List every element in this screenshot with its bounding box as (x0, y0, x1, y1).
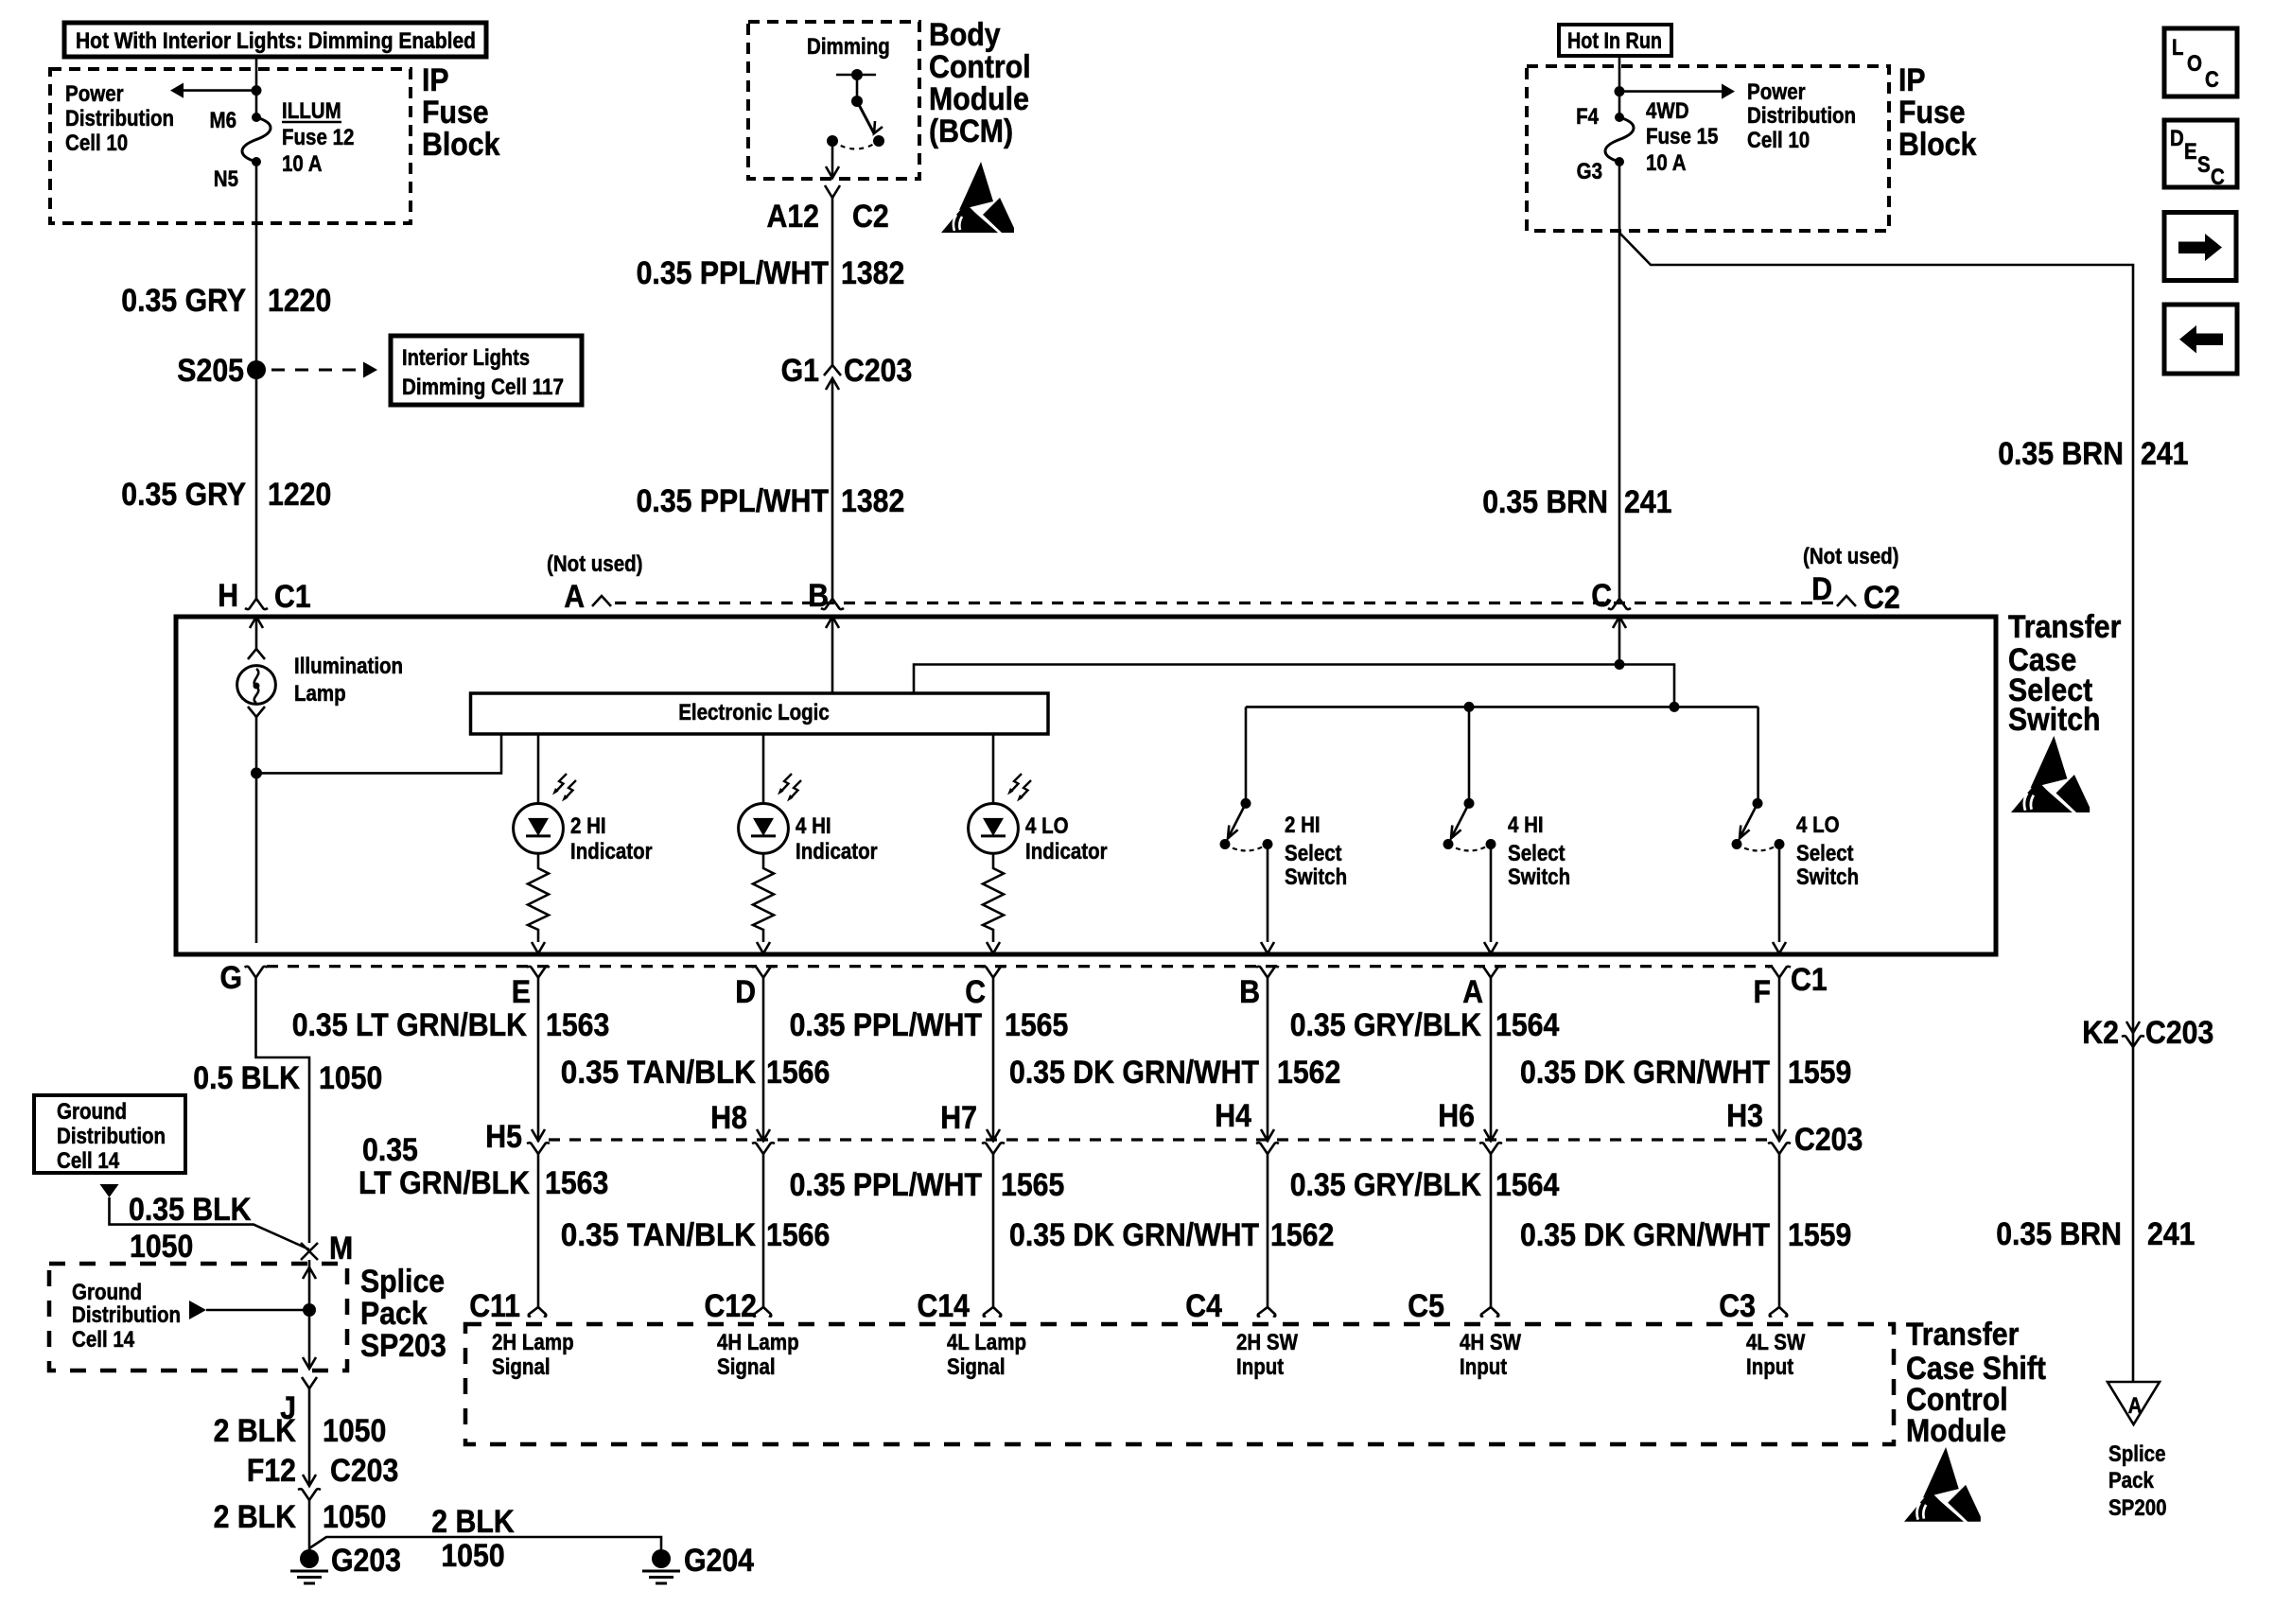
wire: pin D down to C203 (762, 978, 765, 1142)
in-line connector H8 C203 (710, 1100, 775, 1154)
module pin label C4 (1185, 1288, 1222, 1324)
svg-text:C203: C203 (330, 1453, 398, 1489)
svg-text:1382: 1382 (841, 483, 904, 519)
DESC box (2164, 120, 2237, 190)
svg-text:G: G (220, 960, 243, 996)
svg-text:H3: H3 (1726, 1098, 1763, 1134)
in-line connector K2 C203 (right) (2082, 1015, 2213, 1051)
svg-text:241: 241 (1624, 484, 1672, 520)
wire label 0.35 GRY/BLK 1564 (row3) (1290, 1167, 1560, 1203)
wire: feed to splice M (110, 1197, 310, 1249)
svg-text:1220: 1220 (268, 477, 331, 513)
connector C1 dashed line (bottom) (267, 965, 1773, 968)
text 4H Lamp Signal (717, 1330, 799, 1380)
junction node (right fuse feed) (1615, 86, 1625, 96)
svg-text:0.35 DK GRN/WHT: 0.35 DK GRN/WHT (1009, 1055, 1259, 1091)
ground distribution feed triangle (100, 1184, 119, 1197)
fuse ILLUM Fuse 12 10A (symbol) (242, 113, 271, 166)
svg-text:(BCM): (BCM) (929, 114, 1013, 149)
svg-text:Hot With Interior Lights: Dimm: Hot With Interior Lights: Dimming Enable… (76, 28, 476, 54)
svg-text:Fuse 12: Fuse 12 (282, 125, 354, 150)
Transfer Case Shift Control Module dashed box (465, 1324, 1894, 1444)
svg-text:4 LO: 4 LO (1025, 813, 1069, 839)
svg-text:1050: 1050 (323, 1413, 386, 1449)
wire: switch to BCM box edge with arrow (826, 141, 839, 178)
svg-text:0.35 GRY/BLK: 0.35 GRY/BLK (1290, 1167, 1482, 1203)
svg-text:Ground: Ground (72, 1280, 142, 1305)
pin label G3 (1577, 159, 1602, 184)
switch 2 HI Select Switch (1220, 798, 1275, 953)
module pin label C12 (705, 1288, 758, 1324)
svg-text:Illumination: Illumination (294, 654, 403, 679)
svg-text:S205: S205 (177, 353, 244, 389)
arrowhead to Interior Lights box (363, 362, 377, 378)
svg-text:C1: C1 (274, 579, 311, 615)
svg-text:1564: 1564 (1496, 1167, 1559, 1203)
illumination lamp terminal chevron (top) (248, 649, 265, 659)
svg-text:1220: 1220 (268, 283, 331, 319)
svg-text:Hot In Run: Hot In Run (1567, 28, 1662, 54)
svg-text:Fuse: Fuse (1898, 95, 1966, 131)
svg-text:LT GRN/BLK: LT GRN/BLK (359, 1165, 530, 1201)
svg-text:2 HI: 2 HI (570, 813, 606, 839)
svg-text:1566: 1566 (766, 1217, 830, 1253)
svg-text:Cell 10: Cell 10 (65, 131, 128, 156)
svg-text:4L Lamp: 4L Lamp (947, 1330, 1026, 1355)
wire: branch to splice pack SP200 (right edge run) (1619, 233, 2133, 1382)
svg-text:Dimming: Dimming (807, 34, 890, 60)
in-line connector F12 C203 (247, 1453, 398, 1500)
svg-text:E: E (512, 974, 531, 1010)
splice M (X mark) + label (301, 1231, 353, 1266)
wire: fuse N5 down to S205 (255, 162, 258, 370)
svg-text:0.35 BRN: 0.35 BRN (1996, 1216, 2122, 1252)
illumination lamp terminal chevron (bottom) (248, 707, 265, 717)
LOC box (2164, 28, 2237, 96)
svg-text:Interior Lights: Interior Lights (402, 345, 530, 371)
IP fuse block dashed box (left) (50, 69, 411, 223)
pin A (bottom) fork + label (1462, 967, 1502, 1010)
label box: Ground Distribution Cell 14 (upper) (34, 1095, 185, 1174)
svg-text:L: L (2172, 35, 2184, 61)
svg-text:0.5 BLK: 0.5 BLK (193, 1060, 300, 1096)
svg-text:Fuse: Fuse (422, 95, 489, 131)
svg-text:C1: C1 (1791, 962, 1828, 998)
text Illumination Lamp (294, 654, 403, 707)
text 4H SW Input (1460, 1330, 1521, 1380)
svg-text:Transfer: Transfer (1906, 1317, 2019, 1353)
svg-text:4H Lamp: 4H Lamp (717, 1330, 799, 1355)
wire: pin F down to C203 (1778, 978, 1781, 1142)
svg-text:1559: 1559 (1788, 1055, 1851, 1091)
svg-text:1564: 1564 (1496, 1007, 1559, 1043)
wire label 2 BLK 1050 (upper) (214, 1413, 387, 1449)
svg-text:0.35 GRY: 0.35 GRY (121, 477, 246, 513)
svg-text:Module: Module (929, 81, 1029, 117)
text ILLUM Fuse 12 10 A (282, 98, 354, 177)
wire label 0.35 TAN/BLK 1566 (row4) (561, 1217, 831, 1253)
splice pack SP200 triangle (2108, 1382, 2160, 1424)
svg-text:Body: Body (929, 17, 1001, 53)
svg-text:Distribution: Distribution (57, 1124, 166, 1149)
svg-text:Switch: Switch (2008, 702, 2101, 738)
Transfer Case Select Switch box (176, 617, 1996, 954)
svg-text:G1: G1 (781, 353, 819, 389)
module pin fork (D column) (754, 1307, 772, 1317)
dimming switch inside BCM (827, 69, 884, 149)
text 4 LO Select Switch (1796, 812, 1859, 890)
svg-text:Cell 14: Cell 14 (57, 1148, 120, 1174)
svg-text:Switch: Switch (1508, 864, 1570, 890)
splice box exit arrow (303, 1357, 316, 1369)
svg-text:C4: C4 (1185, 1288, 1222, 1324)
svg-text:Distribution: Distribution (65, 106, 174, 131)
label box: Hot In Run (1559, 25, 1671, 56)
svg-text:1050: 1050 (323, 1499, 386, 1535)
pin C fork and label (1591, 578, 1631, 614)
svg-text:4H SW: 4H SW (1460, 1330, 1521, 1355)
text Body Control Module (BCM) (929, 17, 1031, 149)
svg-text:Block: Block (422, 127, 499, 163)
wire: D column down to shift module (762, 1154, 765, 1307)
svg-text:(Not used): (Not used) (1803, 544, 1899, 569)
svg-text:0.35 BLK: 0.35 BLK (129, 1192, 252, 1228)
wire label 0.35 GRY/BLK 1564 (row1) (1290, 1007, 1560, 1043)
svg-text:Fuse 15: Fuse 15 (1646, 124, 1718, 149)
svg-text:Splice: Splice (360, 1264, 445, 1300)
svg-text:Switch: Switch (1285, 864, 1347, 890)
svg-text:Electronic Logic: Electronic Logic (678, 700, 830, 725)
junction node (lamp return) (251, 767, 262, 778)
module pin fork (E column) (529, 1307, 547, 1317)
wire: F12 down to ground G203 (308, 1500, 311, 1551)
LED 4 HI Indicator + resistor (739, 734, 801, 953)
svg-text:D: D (735, 974, 756, 1010)
pin G (bottom) fork + label (220, 960, 268, 996)
wire: J down to C203 (308, 1388, 311, 1485)
pin labels A12 / C2 (767, 199, 889, 235)
svg-text:0.35 GRY/BLK: 0.35 GRY/BLK (1290, 1007, 1482, 1043)
wire label 0.35 / LT GRN/BLK 1563 (row3) (359, 1132, 608, 1201)
text 4 HI Select Switch (1508, 812, 1570, 890)
wire: pin B down to C203 (1267, 978, 1269, 1142)
svg-text:C203: C203 (2145, 1015, 2213, 1051)
pin H arrow into box (250, 617, 263, 628)
svg-text:F12: F12 (247, 1453, 296, 1489)
in-line connector H4 C203 (1215, 1098, 1279, 1154)
svg-text:2 HI: 2 HI (1285, 812, 1321, 838)
ESD symbol (select switch) (2011, 736, 2090, 812)
Splice Pack SP203 dashed box (49, 1264, 347, 1371)
svg-text:1563: 1563 (546, 1007, 609, 1043)
svg-text:1050: 1050 (319, 1060, 382, 1096)
svg-text:F4: F4 (1576, 104, 1599, 130)
svg-text:4L SW: 4L SW (1746, 1330, 1806, 1355)
wire: Electronic Logic feed to switch bus (914, 665, 1674, 707)
svg-text:Input: Input (1746, 1354, 1793, 1380)
svg-text:K2: K2 (2082, 1015, 2119, 1051)
svg-text:G203: G203 (331, 1543, 401, 1579)
wire: lamp junction to Electronic Logic (256, 734, 501, 773)
pin label M6 (210, 108, 237, 133)
wire: pin B into Electronic Logic (831, 617, 834, 693)
svg-text:B: B (808, 578, 829, 614)
text Power Distribution Cell 10 (left) (65, 81, 174, 156)
svg-text:Switch: Switch (1796, 864, 1859, 890)
svg-text:Indicator: Indicator (1025, 839, 1108, 864)
svg-text:A12: A12 (767, 199, 820, 235)
svg-text:Distribution: Distribution (1747, 103, 1856, 129)
module pin label C14 (918, 1288, 971, 1324)
svg-text:10 A: 10 A (1646, 150, 1687, 176)
svg-text:Module: Module (1906, 1413, 2006, 1449)
module pin fork (C column) (984, 1307, 1002, 1317)
svg-text:IP: IP (1898, 62, 1926, 98)
in-line connector G1 C203 (781, 353, 913, 390)
pin B (bottom) fork + label (1239, 967, 1279, 1010)
text 2 HI Select Switch (1285, 812, 1347, 890)
IP fuse block dashed box (right) (1527, 66, 1889, 231)
text 4 HI Indicator (796, 813, 878, 864)
svg-text:E: E (2184, 139, 2197, 165)
wire: F column down to shift module (1778, 1154, 1781, 1307)
pin H (C1) fork and label (218, 578, 311, 615)
svg-text:A: A (564, 579, 585, 615)
module pin label C3 (1719, 1288, 1756, 1324)
ground G203 (290, 1543, 401, 1583)
module pin label C5 (1408, 1288, 1444, 1324)
svg-text:H5: H5 (485, 1119, 522, 1155)
svg-text:0.35 BRN: 0.35 BRN (1482, 484, 1608, 520)
fuse 4WD Fuse 15 10A (symbol) (1605, 113, 1634, 166)
wire label 0.35 GRY 1220 (lower) (121, 477, 331, 513)
svg-text:C12: C12 (705, 1288, 758, 1324)
svg-text:Block: Block (1898, 127, 1976, 163)
svg-text:C5: C5 (1408, 1288, 1444, 1324)
wire label 0.35 DK GRN/WHT 1562 (row4) (1009, 1217, 1334, 1253)
ground G204 (642, 1543, 754, 1583)
pin B arrow into box (826, 617, 839, 628)
wire: B column down to shift module (1267, 1154, 1269, 1307)
svg-text:2 BLK: 2 BLK (214, 1413, 297, 1449)
ESD symbol (BCM) (941, 162, 1014, 233)
text 2H Lamp Signal (492, 1330, 574, 1380)
module pin label C11 (469, 1288, 520, 1324)
connector fork below splice box (pin J) (280, 1377, 317, 1426)
wire: C203 down to pin B (831, 378, 834, 599)
in-line connector H7 C203 (940, 1100, 1005, 1154)
svg-text:D: D (2170, 126, 2184, 151)
text Power Distribution Cell 10 (right) (1747, 79, 1856, 153)
svg-text:4 HI: 4 HI (1508, 812, 1544, 838)
pin B fork and label (808, 578, 844, 614)
svg-text:241: 241 (2141, 436, 2189, 472)
svg-text:0.35 DK GRN/WHT: 0.35 DK GRN/WHT (1009, 1217, 1259, 1253)
wire: lamp to junction (255, 717, 258, 773)
svg-text:1562: 1562 (1277, 1055, 1340, 1091)
wire label 0.35 DK GRN/WHT 1559 (row4) (1520, 1217, 1851, 1253)
svg-text:S: S (2197, 152, 2211, 178)
text Splice Pack SP203 (360, 1264, 446, 1364)
wire label 0.35 BRN 241 (center) (1482, 484, 1671, 520)
text 2H SW Input (1236, 1330, 1298, 1380)
svg-text:B: B (1239, 974, 1260, 1010)
svg-text:C203: C203 (844, 353, 912, 389)
pin label N5 (214, 166, 238, 192)
wire label 0.35 DK GRN/WHT 1559 (row2) (1520, 1055, 1851, 1091)
svg-text:Power: Power (65, 81, 124, 107)
svg-text:0.35: 0.35 (362, 1132, 418, 1168)
svg-text:Select: Select (1796, 841, 1854, 866)
wire: lamp junction down to pin G (255, 773, 258, 943)
svg-text:Cell 10: Cell 10 (1747, 128, 1810, 153)
svg-text:IP: IP (422, 62, 449, 98)
svg-text:G3: G3 (1577, 159, 1602, 184)
svg-text:Power: Power (1747, 79, 1806, 105)
svg-text:SP200: SP200 (2108, 1495, 2167, 1521)
wire label 2 BLK / 1050 (branch) (431, 1504, 515, 1574)
wire: S205 down to pin H (255, 370, 258, 599)
wire: pin C down to logic feed (1618, 617, 1621, 665)
svg-text:C2: C2 (1863, 580, 1900, 616)
wire: pin H to illumination lamp (255, 617, 258, 649)
svg-text:1050: 1050 (130, 1229, 193, 1265)
junction node (C feed) (1615, 659, 1625, 670)
svg-text:Indicator: Indicator (570, 839, 653, 864)
splice S205 node (177, 353, 266, 389)
label C1 (bottom connector) (1791, 962, 1828, 998)
junction node at fuse feed (252, 85, 262, 96)
svg-text:Dimming Cell 117: Dimming Cell 117 (402, 375, 564, 400)
svg-text:D: D (1811, 571, 1832, 607)
text IP Fuse Block (left) (422, 62, 499, 163)
in-line connector H5 C203 (485, 1119, 550, 1155)
svg-text:0.35 TAN/BLK: 0.35 TAN/BLK (561, 1055, 757, 1091)
wire: bus corner down to 2HI switch (1245, 707, 1248, 803)
wire: M through splice box (303, 1260, 316, 1369)
pin A (not used) caret + label (547, 551, 643, 615)
svg-text:ILLUM: ILLUM (282, 98, 341, 124)
svg-text:4 HI: 4 HI (796, 813, 831, 839)
wire: E column down to shift module (537, 1154, 540, 1307)
wire label 0.35 BRN 241 (right lower) (1996, 1216, 2195, 1252)
wire label 0.35 DK GRN/WHT 1562 (row2) (1009, 1055, 1340, 1091)
svg-text:Transfer: Transfer (2008, 609, 2121, 645)
wire: pin E down to C203 (537, 978, 540, 1142)
arrow to Power Distribution (right) (1619, 84, 1735, 99)
text Dimming (807, 34, 890, 60)
svg-text:1562: 1562 (1270, 1217, 1334, 1253)
switch 4 HI Select Switch (1443, 798, 1498, 953)
junction node (bus/logic) (1670, 702, 1680, 712)
pin label F4 (1576, 104, 1599, 130)
svg-text:Distribution: Distribution (72, 1302, 181, 1328)
wire: from title box into fuse block (255, 57, 258, 117)
LED 2 HI Indicator + resistor (514, 734, 576, 953)
svg-text:C14: C14 (918, 1288, 971, 1324)
arrow to Power Distribution (left) (170, 83, 256, 98)
svg-text:Pack: Pack (2108, 1468, 2154, 1493)
svg-text:0.35 DK GRN/WHT: 0.35 DK GRN/WHT (1520, 1217, 1770, 1253)
svg-text:1565: 1565 (1001, 1167, 1064, 1203)
svg-text:2H Lamp: 2H Lamp (492, 1330, 574, 1355)
svg-text:1563: 1563 (545, 1165, 608, 1201)
wire label 0.35 PPL/WHT 1382 (lower) (637, 483, 905, 519)
wire: fuse G3 down to pin C (1618, 162, 1621, 599)
pin C arrow into box (1613, 617, 1626, 628)
svg-text:SP203: SP203 (360, 1328, 446, 1364)
svg-text:C11: C11 (469, 1288, 520, 1324)
svg-text:C3: C3 (1719, 1288, 1756, 1324)
svg-text:0.35 PPL/WHT: 0.35 PPL/WHT (790, 1007, 983, 1043)
connector fork below BCM (pin A12) (825, 185, 840, 198)
svg-text:0.35 PPL/WHT: 0.35 PPL/WHT (637, 483, 830, 519)
text Ground Distribution Cell 14 (in splice box) (72, 1280, 181, 1353)
wire: pin C down to C203 (992, 978, 995, 1142)
wire label 2 BLK 1050 (lower) (214, 1499, 387, 1535)
wire: C column down to shift module (992, 1154, 995, 1307)
wire label 0.35 BLK / 1050 (129, 1192, 252, 1265)
svg-text:1566: 1566 (766, 1055, 830, 1091)
svg-text:C2: C2 (852, 199, 889, 235)
svg-text:Input: Input (1460, 1354, 1507, 1380)
svg-text:Select: Select (1508, 841, 1566, 866)
svg-text:C: C (965, 974, 986, 1010)
svg-text:4WD: 4WD (1646, 98, 1689, 124)
svg-text:C: C (2211, 165, 2225, 190)
BCM dashed box (748, 22, 919, 179)
module pin fork (F column) (1770, 1307, 1788, 1317)
svg-text:H6: H6 (1438, 1098, 1475, 1134)
text 4L SW Input (1746, 1330, 1806, 1380)
module pin fork (A column) (1481, 1307, 1499, 1317)
svg-text:0.35 DK GRN/WHT: 0.35 DK GRN/WHT (1520, 1055, 1770, 1091)
svg-text:C: C (2205, 67, 2219, 93)
module pin fork (B column) (1258, 1307, 1276, 1317)
svg-text:241: 241 (2147, 1216, 2195, 1252)
svg-text:Lamp: Lamp (294, 681, 346, 707)
text 4 LO Indicator (1025, 813, 1108, 864)
label box: Interior Lights Dimming Cell 117 (391, 336, 582, 405)
svg-text:Cell 14: Cell 14 (72, 1327, 135, 1353)
wire: pin A down to C203 (1490, 978, 1493, 1142)
svg-text:0.35 TAN/BLK: 0.35 TAN/BLK (561, 1217, 757, 1253)
text Transfer Case Select Switch (2008, 609, 2121, 738)
connector C203 dashed line (mid) (549, 1138, 1771, 1141)
label C203 (mid connector) (1794, 1122, 1863, 1158)
wire label 0.35 GRY 1220 (upper) (121, 283, 331, 319)
wire label 0.35 LT GRN/BLK 1563 (row1) (292, 1007, 610, 1043)
right-arrow box (2164, 213, 2236, 281)
svg-text:A: A (2128, 1393, 2143, 1419)
svg-text:H8: H8 (710, 1100, 747, 1136)
svg-text:Control: Control (929, 49, 1031, 85)
svg-text:Pack: Pack (360, 1296, 428, 1332)
wire: A column down to shift module (1490, 1154, 1493, 1307)
svg-text:A: A (1462, 974, 1483, 1010)
svg-text:0.35 BRN: 0.35 BRN (1998, 436, 2124, 472)
svg-text:H: H (218, 578, 238, 614)
svg-text:H7: H7 (940, 1100, 977, 1136)
wire label 0.35 PPL/WHT 1565 (row3) (790, 1167, 1065, 1203)
svg-text:0.35 LT GRN/BLK: 0.35 LT GRN/BLK (292, 1007, 528, 1043)
pin E (bottom) fork + label (512, 967, 550, 1010)
pin F (bottom) fork + label (1754, 967, 1792, 1010)
switch 4 LO Select Switch (1732, 798, 1787, 953)
label box: Hot With Interior Lights: Dimming Enabled (64, 23, 486, 57)
svg-text:F: F (1754, 974, 1772, 1010)
wire: branch to ground G204 (309, 1537, 661, 1551)
